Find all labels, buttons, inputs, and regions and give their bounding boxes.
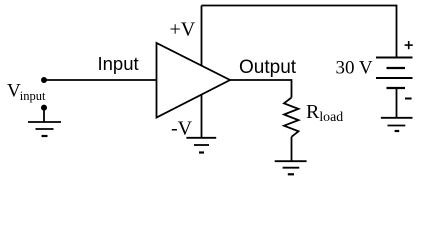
battery minus terminal mark bbox=[405, 98, 412, 100]
node ground-ref dot bbox=[41, 105, 47, 111]
resistor Rload zigzag bbox=[284, 98, 299, 137]
battery B1 30V plates bbox=[376, 58, 413, 89]
ground (load) bbox=[275, 161, 307, 174]
wire output bbox=[230, 80, 292, 98]
node Vinput dot bbox=[41, 77, 47, 83]
battery plus terminal mark bbox=[405, 41, 413, 49]
ground (negative rail) bbox=[186, 138, 216, 153]
wire +V rail / -V rail vertical bbox=[201, 6, 203, 138]
svg-text:Input: Input bbox=[98, 53, 139, 74]
svg-text:+V: +V bbox=[170, 19, 196, 41]
wire resistor to ground bbox=[291, 137, 293, 161]
ground (input reference) bbox=[28, 122, 61, 136]
wire input bbox=[44, 79, 157, 81]
svg-text:30 V: 30 V bbox=[336, 58, 373, 79]
svg-text:Vinput: Vinput bbox=[7, 81, 46, 104]
wire top supply bbox=[202, 6, 397, 58]
svg-text:-V: -V bbox=[171, 118, 193, 140]
svg-text:Output: Output bbox=[239, 57, 297, 78]
svg-text:Rload: Rload bbox=[306, 101, 343, 124]
wire Vinput to ground bbox=[43, 108, 45, 122]
op-amp U1 triangle bbox=[157, 43, 231, 118]
wire battery to ground bbox=[396, 88, 398, 118]
ground (battery) bbox=[381, 118, 413, 131]
